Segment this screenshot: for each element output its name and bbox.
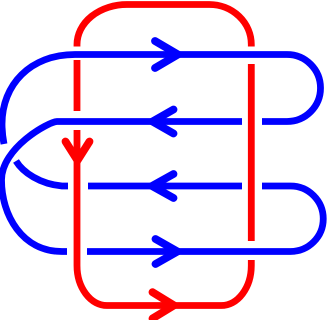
halo casing: red bottom loop	[77, 130, 251, 306]
arrow blue line1	[155, 41, 178, 68]
halo casing: blue line3 left piece + inner-left loop lower	[16, 161, 68, 186]
halo casing: red down arrowhead	[66, 142, 90, 161]
halo casing: red top arc	[77, 5, 251, 47]
wire blue line4 + bottom-right cap + line3 right piece	[87, 186, 323, 252]
arrow blue line4	[156, 239, 178, 264]
arrow red down	[66, 142, 90, 161]
wire red right upper	[248, 64, 255, 241]
blue component	[2, 41, 324, 264]
halo casing: blue arrowhead line3	[152, 174, 174, 198]
halo casing: blue line2 + outer-left loop + line4 left piece	[2, 122, 243, 252]
wire blue line3 left piece + inner-left loop lower	[16, 161, 68, 186]
wire blue line3 middle	[88, 183, 242, 190]
red component	[66, 5, 252, 319]
halo casing: red left vertical upper	[70, 60, 85, 111]
arrow blue line2	[153, 110, 174, 134]
arrow blue line3	[152, 174, 174, 198]
halo casing: blue line4 + bottom-right cap + line3 right piece	[87, 186, 323, 252]
wire red bottom loop	[77, 130, 251, 306]
wire blue line2 + outer-left loop + line4 left piece	[2, 122, 243, 252]
wire red top	[77, 5, 251, 47]
wire red left upper	[74, 60, 81, 111]
halo casing: red right arrowhead	[153, 292, 175, 318]
arrow red right	[153, 292, 175, 318]
halo casing: blue arrowhead line2	[153, 110, 174, 134]
halo casing: blue line3 middle	[88, 179, 242, 194]
halo casing: blue arrowhead line1	[155, 41, 178, 68]
halo casing: blue inner-left loop + line1 + top-right cap + line2 right piece	[2, 55, 321, 145]
halo casing: red right vertical	[244, 64, 259, 241]
halo casing: blue arrowhead line4	[156, 239, 178, 264]
wire blue inner-left loop upper + line1 + top-right cap + line2 right piece	[2, 55, 321, 145]
